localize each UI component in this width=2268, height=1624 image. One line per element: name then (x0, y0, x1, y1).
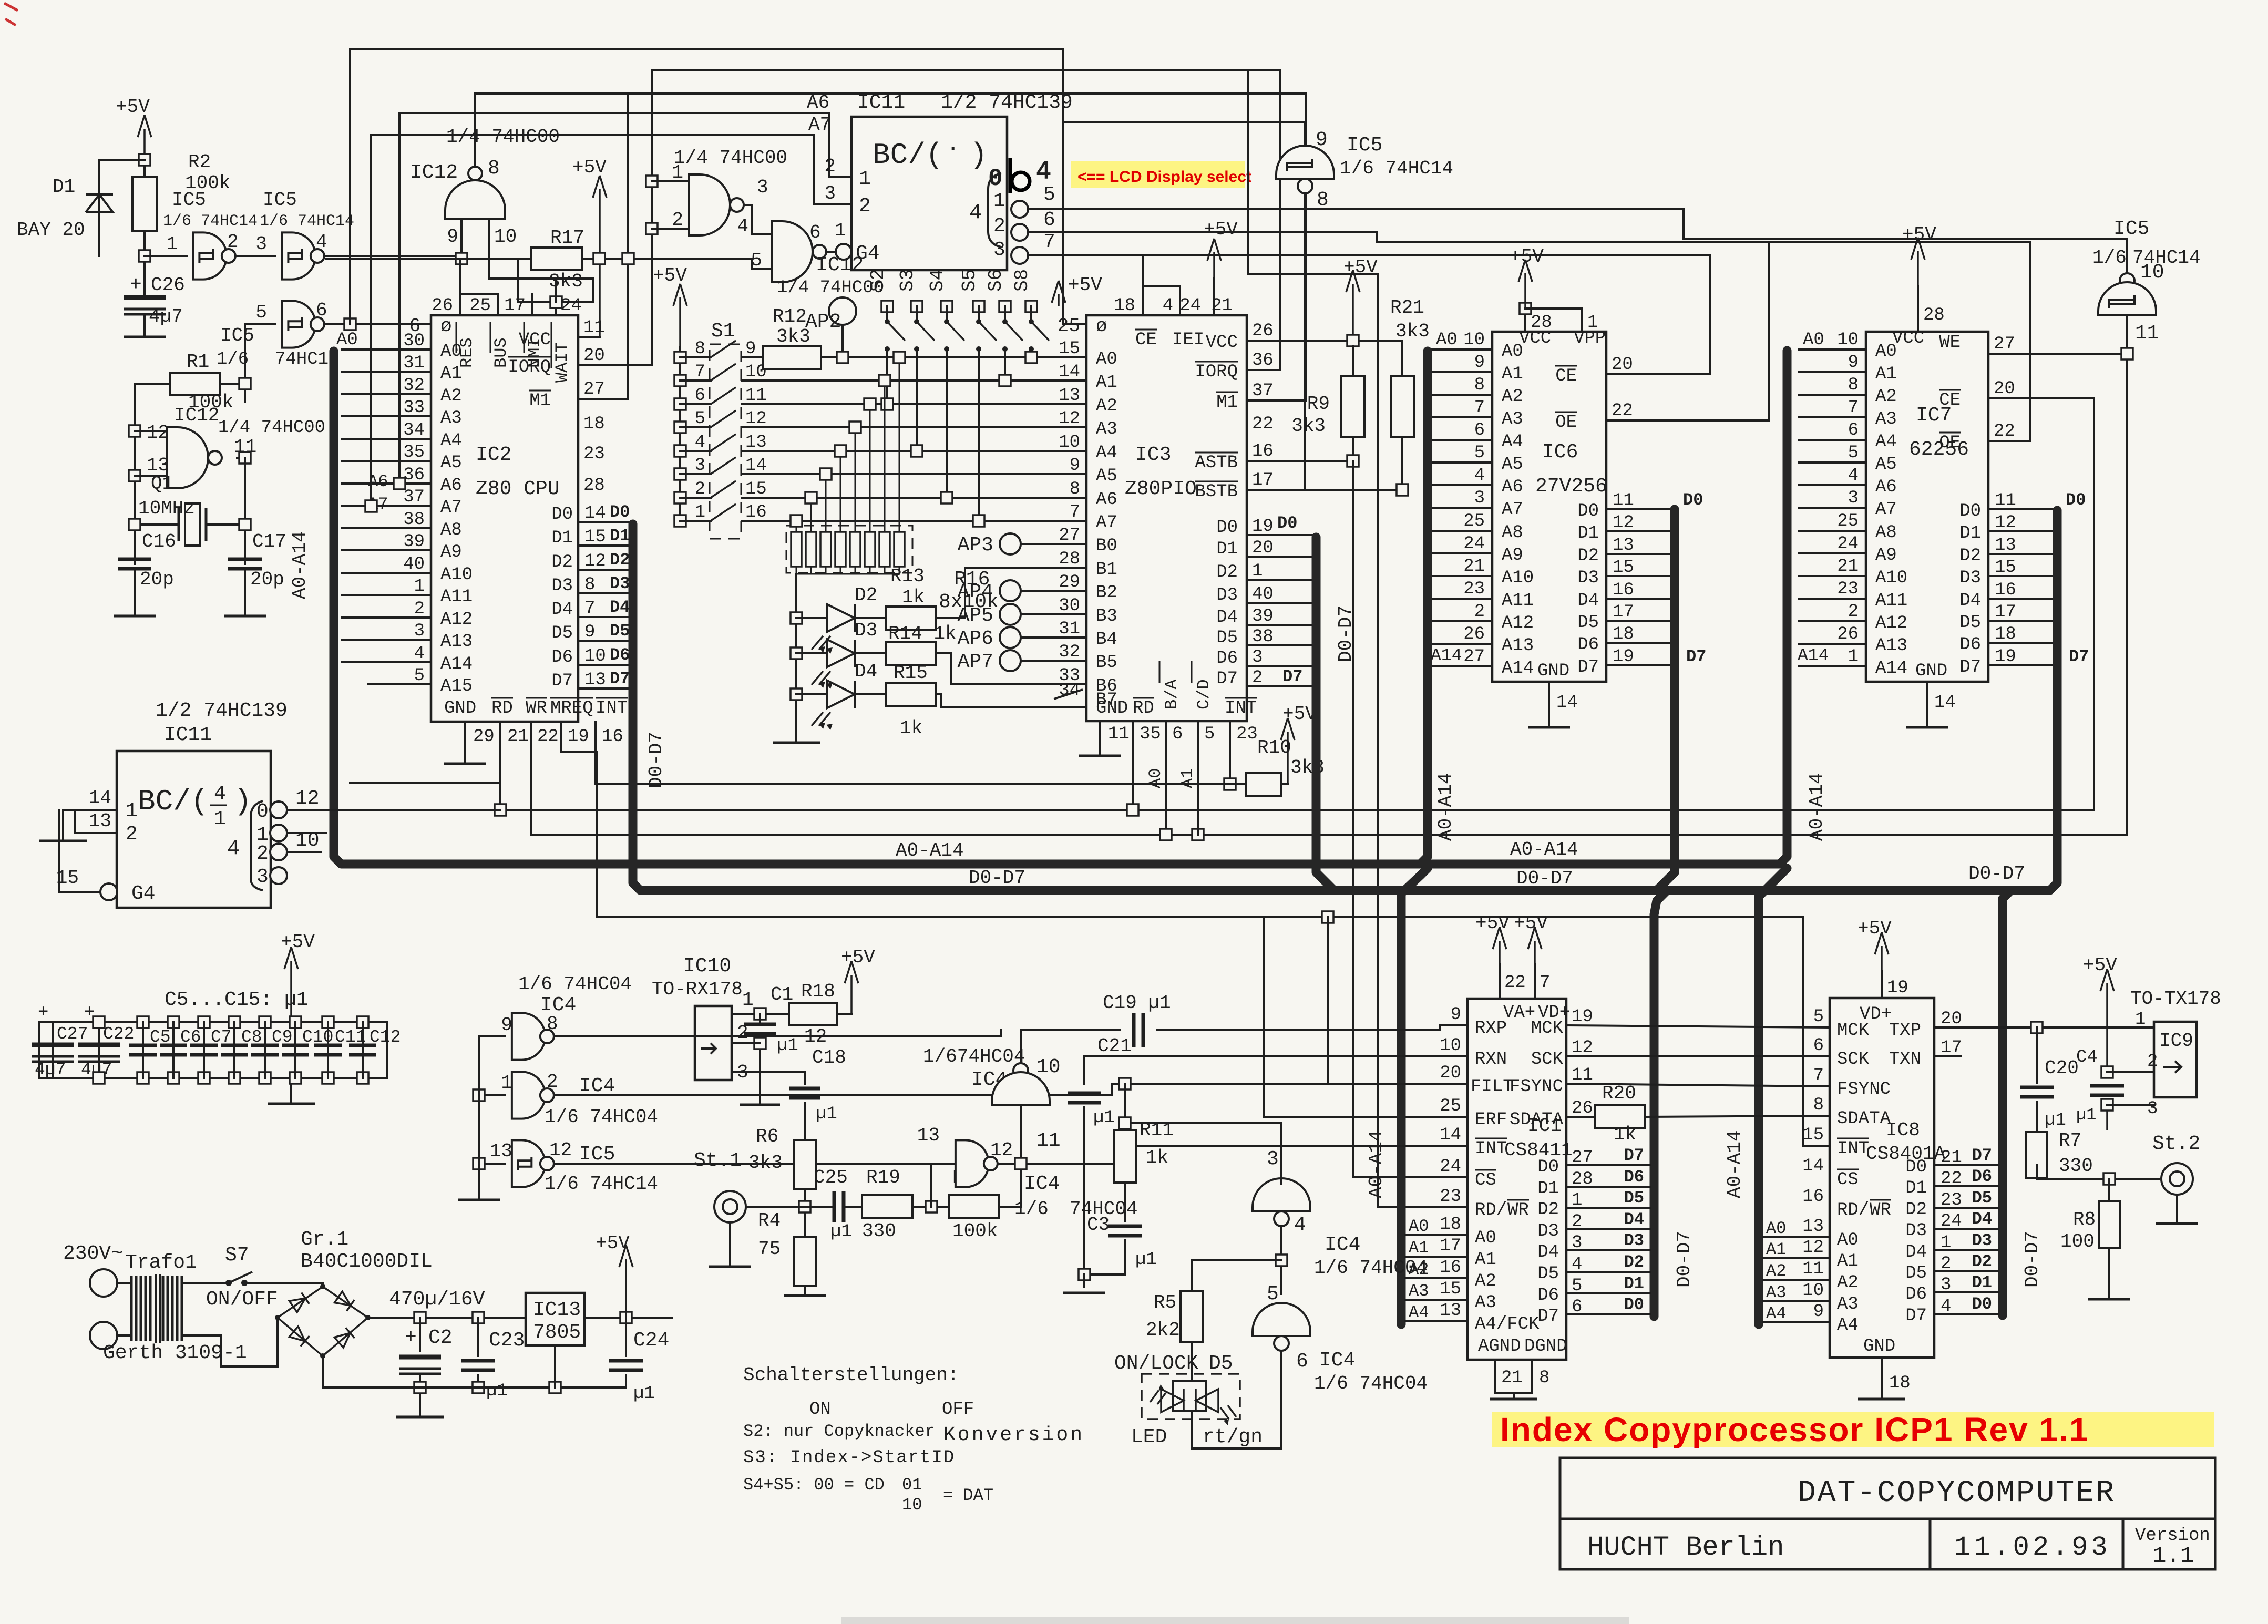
svg-text:19: 19 (568, 727, 589, 747)
svg-text:31: 31 (1059, 619, 1080, 639)
svg-text:24: 24 (1463, 534, 1485, 554)
svg-text:35: 35 (403, 443, 425, 462)
svg-text:D2: D2 (1577, 546, 1599, 566)
svg-text:HUCHT Berlin: HUCHT Berlin (1587, 1532, 1784, 1563)
resistor R21 3k3 (1401, 341, 1403, 484)
svg-text:23: 23 (1837, 579, 1859, 599)
svg-text:9: 9 (745, 339, 756, 359)
wire A3 to bus IC8 (1763, 1300, 1830, 1302)
svg-text:A8: A8 (440, 520, 462, 540)
wire A3 to bus IC1 (1405, 1299, 1467, 1301)
wire under R17 (518, 301, 593, 303)
svg-text:20: 20 (1994, 379, 2015, 399)
svg-text:A4: A4 (1875, 432, 1897, 452)
wire NAND3 to NAND4 (744, 205, 772, 234)
svg-text:35: 35 (1140, 724, 1161, 744)
svg-text:µ1: µ1 (777, 1036, 798, 1056)
svg-text:IC12: IC12 (174, 405, 219, 426)
svg-text:10: 10 (1837, 330, 1859, 350)
wire S2 drop (886, 349, 888, 404)
svg-text:D2: D2 (1905, 1200, 1927, 1220)
svg-text:A13: A13 (1875, 636, 1907, 656)
svg-text:D3: D3 (551, 576, 573, 596)
svg-text:GND: GND (1537, 661, 1569, 681)
wire (135, 383, 170, 385)
svg-text:+5V: +5V (116, 96, 150, 118)
svg-text:3: 3 (256, 866, 269, 888)
pin A10 of IC7 (1799, 575, 1866, 577)
svg-text:RD: RD (1133, 698, 1154, 718)
svg-text:+5V: +5V (1204, 219, 1238, 240)
svg-text:13: 13 (1440, 1301, 1461, 1321)
wire IORQ net (652, 70, 1280, 370)
svg-text:A0-A14: A0-A14 (896, 840, 964, 861)
wire C/D drop (1197, 721, 1199, 835)
svg-text:INT: INT (1475, 1139, 1507, 1159)
svg-text:A5: A5 (1875, 455, 1897, 475)
svg-text:12: 12 (147, 422, 169, 444)
svg-text:R19: R19 (866, 1167, 900, 1188)
svg-text:LED: LED (1131, 1426, 1167, 1448)
svg-text:A10: A10 (440, 565, 473, 585)
svg-text:C24: C24 (633, 1329, 669, 1352)
svg-text:FSYNC: FSYNC (1837, 1080, 1891, 1099)
wire row A2 (742, 403, 1086, 405)
capacitor C9 (259, 1016, 271, 1028)
svg-text:D0: D0 (1972, 1294, 1992, 1314)
svg-text:A0: A0 (1436, 330, 1458, 350)
wire NAND 5 input (752, 259, 772, 269)
svg-text:A1: A1 (1178, 768, 1197, 788)
ground (124, 336, 166, 338)
ground (268, 1103, 315, 1105)
pin D0 of IC7 (1988, 508, 2053, 510)
svg-text:1k: 1k (1614, 1124, 1636, 1145)
svg-text:1/6 74HC04: 1/6 74HC04 (545, 1106, 658, 1128)
svg-text:16: 16 (602, 727, 623, 747)
pin D5 of IC3 (1247, 644, 1312, 646)
svg-text:10MHz: 10MHz (138, 498, 195, 519)
svg-text:1: 1 (1587, 313, 1598, 333)
svg-text:1: 1 (126, 800, 138, 823)
svg-text:Z80 CPU: Z80 CPU (476, 478, 560, 500)
inverter IC5 pin10->11 far right (1684, 209, 2127, 273)
svg-text:15: 15 (1995, 558, 2016, 578)
wire pin3 (2106, 1100, 2108, 1130)
svg-text:3: 3 (1252, 647, 1263, 667)
wire pin9 down (460, 219, 463, 259)
svg-text:11: 11 (1995, 491, 2016, 511)
wire pin2 input from MREQ (75, 810, 117, 833)
svg-text:14: 14 (89, 787, 111, 809)
svg-text:29: 29 (1059, 572, 1080, 592)
svg-text:2: 2 (547, 1071, 558, 1093)
svg-text:6: 6 (695, 386, 705, 406)
svg-text:D3: D3 (1537, 1221, 1559, 1241)
wire right column (244, 458, 246, 564)
svg-text:14: 14 (1440, 1125, 1461, 1145)
svg-text:S1: S1 (711, 320, 735, 343)
svg-text:D2: D2 (610, 550, 630, 570)
bus D0-D7 IC8 branch (2003, 890, 2011, 1315)
svg-text:5: 5 (1848, 443, 1859, 463)
wire C4 pin3 link (2107, 1104, 2154, 1106)
svg-text:+5V: +5V (281, 931, 315, 953)
wire st2 (2161, 1194, 2162, 1240)
svg-text:C17: C17 (252, 531, 286, 552)
node (239, 378, 251, 389)
svg-text:14: 14 (584, 503, 606, 523)
svg-text:100k: 100k (952, 1220, 998, 1242)
svg-text:5: 5 (695, 409, 705, 429)
ground (114, 615, 156, 618)
pin 19 VD+ (1881, 971, 1883, 998)
bus A0-A14 IC8 branch (1759, 868, 1787, 1324)
svg-text:): ) (234, 785, 252, 818)
pin 24 top (1213, 279, 1215, 315)
svg-text:1/6: 1/6 (2092, 247, 2127, 269)
svg-text:2: 2 (695, 479, 705, 499)
svg-text:RD: RD (491, 698, 513, 718)
svg-text:R17: R17 (550, 227, 584, 249)
svg-text:2: 2 (414, 599, 425, 619)
capacitor C11 (322, 1016, 334, 1028)
svg-text:27: 27 (1994, 334, 2015, 354)
svg-text:C4: C4 (2076, 1047, 2098, 1067)
LED D3 (791, 647, 802, 659)
svg-text:8: 8 (695, 339, 705, 359)
wire R5 through LED (1191, 1342, 1193, 1381)
wire trafo secondary bottom (182, 1318, 278, 1366)
svg-text:D7: D7 (610, 669, 630, 688)
svg-text:A0-A14: A0-A14 (1806, 773, 1828, 841)
svg-text:Z80PIO: Z80PIO (1125, 478, 1197, 500)
svg-text:IC4: IC4 (1325, 1234, 1360, 1256)
wire MREQ drop (561, 722, 597, 917)
wire R18 to +5V (837, 1013, 851, 1015)
pin A9 of IC7 (1799, 552, 1866, 554)
svg-text:A0-A14: A0-A14 (1366, 1130, 1387, 1198)
svg-text:1/4 74HC00: 1/4 74HC00 (446, 126, 560, 148)
svg-text:10: 10 (1802, 1281, 1824, 1301)
svg-text:A6: A6 (807, 92, 829, 114)
svg-text:4: 4 (1474, 466, 1485, 486)
svg-text:D4: D4 (1905, 1242, 1927, 1262)
wire (134, 569, 136, 616)
wire row A4 (742, 450, 1086, 452)
svg-text:A6: A6 (440, 476, 462, 496)
svg-text:A3: A3 (1837, 1294, 1859, 1314)
svg-text:WAIT: WAIT (552, 342, 572, 383)
svg-text:MCK: MCK (1531, 1019, 1564, 1039)
svg-text:1/6 74HC14: 1/6 74HC14 (1340, 158, 1453, 179)
svg-text:1: 1 (1848, 647, 1859, 667)
inverter IC5 pin9->8 top right (1063, 122, 1305, 151)
capacitor C5 (137, 1016, 149, 1028)
svg-text:7: 7 (1474, 398, 1485, 418)
svg-text:10: 10 (1463, 330, 1485, 350)
wire S5 drop (978, 349, 980, 521)
wire clock to IC2 pin6 (324, 323, 431, 325)
svg-text:RXP: RXP (1475, 1019, 1507, 1039)
svg-text:A1: A1 (1766, 1240, 1786, 1259)
pin 7 VD+ (1534, 964, 1536, 999)
svg-text:+5V: +5V (596, 1232, 630, 1254)
wire aux rail (597, 916, 1803, 918)
svg-text:D4: D4 (551, 600, 573, 620)
ground (444, 763, 486, 765)
svg-text:A0: A0 (1096, 350, 1117, 369)
wire S8 drop (1030, 349, 1032, 357)
svg-text:C26: C26 (151, 274, 185, 296)
svg-text:A9: A9 (1875, 546, 1897, 566)
svg-text:AP6: AP6 (958, 628, 993, 650)
pin A12 of IC6 (1432, 620, 1492, 622)
svg-text:5: 5 (1043, 183, 1055, 206)
svg-text:RD/: RD/ (1475, 1200, 1507, 1220)
svg-text:IC4: IC4 (579, 1075, 615, 1097)
svg-text:A3: A3 (1502, 409, 1523, 429)
svg-text:AP3: AP3 (958, 534, 993, 557)
pin A11 of IC2 (342, 594, 431, 596)
wire (143, 160, 146, 256)
svg-text:A3: A3 (440, 408, 462, 428)
svg-text:21: 21 (1463, 557, 1485, 577)
svg-text:D0-D7: D0-D7 (1674, 1231, 1695, 1288)
svg-text:R5: R5 (1154, 1292, 1176, 1313)
svg-text:ASTB: ASTB (1195, 453, 1238, 473)
pin A14 of IC7 (1799, 665, 1866, 667)
svg-text:TXN: TXN (1889, 1050, 1921, 1070)
svg-text:1/6 74HC04: 1/6 74HC04 (518, 973, 632, 995)
svg-text:·: · (946, 136, 960, 162)
pin D4 of IC6 (1606, 598, 1670, 600)
svg-text:15: 15 (584, 527, 606, 547)
svg-text:VCC: VCC (519, 330, 551, 350)
bridge rectifier Gr.1 (278, 1287, 368, 1356)
wire 7805 output (584, 1317, 672, 1319)
wire column (478, 1036, 480, 1200)
capacitor C6 (168, 1016, 179, 1028)
pin D3 of IC3 (1247, 602, 1312, 604)
inverter IC5 pin13->12 (512, 1140, 545, 1187)
svg-text:3k3: 3k3 (748, 1152, 783, 1174)
svg-text:27: 27 (583, 379, 605, 399)
ground (2088, 1298, 2130, 1301)
wire A0 to bus IC8 (1763, 1236, 1830, 1238)
svg-text:17: 17 (1440, 1236, 1461, 1256)
svg-text:IEI: IEI (1172, 330, 1204, 350)
svg-text:IC12: IC12 (410, 161, 458, 184)
svg-text:A0-A14: A0-A14 (289, 531, 311, 599)
wire A0 to bus IC1 (1405, 1234, 1467, 1236)
svg-text:OFF: OFF (942, 1400, 974, 1420)
svg-text:20: 20 (1941, 1009, 1962, 1029)
wire st2 ground (2176, 1195, 2178, 1222)
svg-text:IC3: IC3 (1135, 444, 1171, 466)
svg-text:27: 27 (1463, 647, 1485, 667)
svg-text:S4+S5: 00 = CD: S4+S5: 00 = CD (743, 1475, 885, 1495)
svg-text:1: 1 (695, 502, 705, 522)
svg-text:+5V: +5V (572, 157, 607, 178)
svg-text:1/4 74HC00: 1/4 74HC00 (674, 147, 787, 169)
svg-text:A4: A4 (1096, 443, 1117, 463)
svg-text:IC13: IC13 (533, 1299, 581, 1321)
power +5V above R9 (1352, 284, 1354, 335)
wire bridge + output (368, 1317, 498, 1319)
svg-text:1.1: 1.1 (2152, 1543, 2194, 1569)
svg-text:A10: A10 (1875, 568, 1907, 588)
pin D2 of IC2 (578, 569, 629, 571)
svg-text:C21: C21 (1097, 1035, 1132, 1057)
svg-text:+5V: +5V (1510, 246, 1544, 268)
svg-text:A2: A2 (1475, 1271, 1496, 1291)
svg-text:B0: B0 (1096, 536, 1117, 556)
svg-text:8: 8 (1070, 479, 1080, 499)
pin 17 NMI (531, 294, 533, 315)
wire pin8 up (474, 94, 476, 167)
svg-text:S4: S4 (927, 269, 948, 292)
svg-text:14: 14 (1059, 362, 1080, 382)
svg-text:17: 17 (1995, 602, 2016, 622)
svg-text:28: 28 (1531, 313, 1552, 333)
svg-text:Index Copyprocessor ICP1 Rev: Index Copyprocessor ICP1 Rev 1.1 (1500, 1411, 2089, 1448)
pin D3 of IC7 (1988, 575, 2053, 577)
svg-text:MCK: MCK (1837, 1021, 1870, 1041)
svg-text:IC4: IC4 (1319, 1349, 1355, 1372)
svg-text:CE: CE (1555, 366, 1577, 386)
svg-text:1k: 1k (902, 587, 925, 608)
pin A14 of IC2 (342, 661, 431, 663)
svg-text:36: 36 (403, 465, 425, 485)
wire row A7 (742, 520, 1086, 522)
svg-text:4: 4 (737, 215, 748, 237)
svg-text:9: 9 (1451, 1005, 1461, 1025)
svg-text:75: 75 (758, 1238, 781, 1260)
pin D1 of IC3 (1247, 556, 1312, 558)
wire St.1 ground (729, 1222, 731, 1267)
svg-text:R8: R8 (2073, 1209, 2096, 1230)
power +5V at IC2 VCC (599, 189, 601, 337)
svg-text:1: 1 (859, 168, 871, 190)
svg-text:GND: GND (1863, 1337, 1895, 1356)
svg-text:9: 9 (584, 622, 595, 642)
svg-text:38: 38 (403, 510, 425, 530)
svg-text:C3: C3 (1087, 1214, 1110, 1236)
svg-text:D6: D6 (551, 647, 573, 667)
svg-text:= DAT: = DAT (943, 1486, 993, 1505)
svg-text:8: 8 (1813, 1095, 1824, 1115)
pin A8 of IC7 (1799, 530, 1866, 532)
wire A6 net vertical (399, 113, 851, 484)
svg-text:4: 4 (1036, 157, 1051, 184)
power +5V top-left (143, 129, 146, 256)
svg-text:B3: B3 (1096, 607, 1117, 626)
bus A0-A14 drop to IC1 (1420, 351, 1428, 864)
svg-text:D3: D3 (1577, 568, 1599, 588)
svg-text:4: 4 (1163, 296, 1173, 316)
svg-text:AP5: AP5 (958, 604, 993, 627)
svg-text:2: 2 (1252, 668, 1263, 688)
power +5V caps row (290, 961, 292, 1022)
svg-text:A7: A7 (1502, 500, 1523, 520)
svg-text:C12: C12 (370, 1027, 401, 1047)
svg-text:13: 13 (745, 433, 767, 453)
pin A5 of IC2 (342, 460, 431, 462)
svg-text:C22: C22 (103, 1024, 134, 1044)
svg-text:23: 23 (583, 444, 605, 464)
svg-text:A1: A1 (1502, 364, 1523, 384)
pin 24 WAIT (555, 279, 557, 315)
pin A5 of IC6 (1432, 461, 1492, 464)
svg-text:16: 16 (1995, 580, 2016, 600)
pin A13 of IC2 (342, 639, 431, 641)
svg-text:D0: D0 (1683, 490, 1703, 510)
svg-text:IC5: IC5 (2113, 218, 2149, 240)
svg-text:A0: A0 (1766, 1219, 1786, 1238)
svg-text:3: 3 (993, 239, 1005, 261)
capacitor C27 (52, 1022, 54, 1078)
svg-text:26: 26 (432, 296, 453, 316)
svg-text:A6: A6 (1096, 490, 1117, 510)
pin D4 of IC3 (1247, 624, 1312, 626)
svg-text:D7: D7 (1959, 657, 1981, 677)
svg-text:10: 10 (1059, 433, 1080, 453)
svg-text:8: 8 (1848, 375, 1859, 395)
svg-text:16: 16 (1252, 441, 1274, 461)
svg-text:BC/(: BC/( (138, 785, 208, 818)
svg-text:+5V: +5V (2083, 954, 2117, 976)
svg-text:OE: OE (1939, 433, 1961, 453)
svg-text:RD/: RD/ (1837, 1200, 1869, 1220)
pin A6 of IC7 (1799, 484, 1866, 486)
svg-text:D5: D5 (1209, 1352, 1233, 1375)
wire A7 net vertical (371, 135, 851, 506)
svg-text:5: 5 (414, 666, 425, 686)
wire 7805 gnd (554, 1345, 556, 1387)
svg-text:S3: S3 (897, 269, 918, 292)
svg-text:11: 11 (745, 386, 767, 406)
svg-text:1/674HC04: 1/674HC04 (923, 1046, 1025, 1067)
svg-text:IORQ: IORQ (1195, 362, 1238, 382)
svg-text:23: 23 (1440, 1187, 1461, 1207)
svg-text:A3: A3 (1875, 409, 1897, 429)
svg-text:R15: R15 (894, 662, 928, 684)
svg-text:A11: A11 (1875, 591, 1907, 611)
pin A7 of IC2 (342, 505, 431, 507)
wire MCK net (1566, 1025, 1830, 1027)
pin A13 of IC6 (1432, 643, 1492, 645)
svg-text:R12: R12 (773, 306, 807, 327)
svg-text:A1: A1 (1409, 1238, 1429, 1258)
svg-text:16: 16 (1802, 1187, 1824, 1207)
svg-text:20p: 20p (250, 569, 284, 590)
svg-text:3: 3 (695, 456, 705, 476)
wire pin1 input (63, 810, 117, 840)
wire (143, 314, 146, 337)
svg-text:28: 28 (1059, 549, 1080, 569)
svg-text:8: 8 (1474, 375, 1485, 395)
svg-text:1/2 74HC139: 1/2 74HC139 (941, 91, 1073, 114)
pin G4 input (100, 883, 117, 900)
svg-text:40: 40 (403, 554, 425, 574)
LED D5 dual dashed box (1142, 1374, 1240, 1419)
power +5V IC7 (1917, 251, 1919, 286)
svg-text:8: 8 (1539, 1368, 1549, 1388)
label yellow LCD select (1071, 161, 1245, 188)
svg-text:12: 12 (1613, 513, 1634, 533)
svg-text:D6: D6 (1577, 635, 1599, 655)
